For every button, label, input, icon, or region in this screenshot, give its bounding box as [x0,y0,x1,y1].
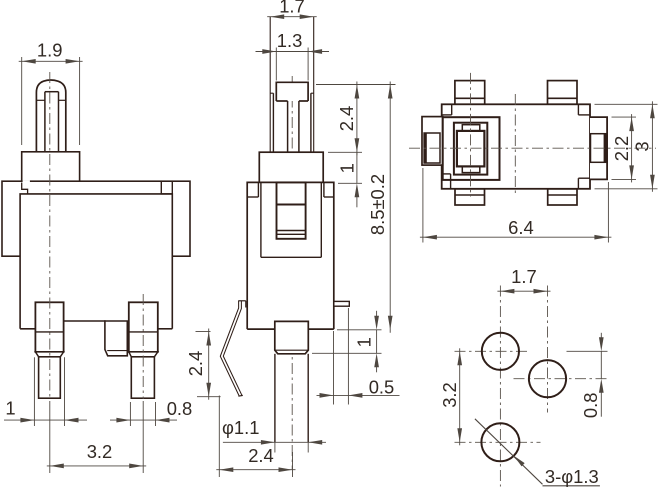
svg-text:3-φ1.3: 3-φ1.3 [545,466,599,487]
svg-text:φ1.1: φ1.1 [222,417,260,438]
svg-text:1.7: 1.7 [511,266,537,287]
svg-text:2.4: 2.4 [185,351,206,377]
svg-text:1.7: 1.7 [279,0,305,17]
svg-text:8.5±0.2: 8.5±0.2 [367,174,388,235]
svg-text:3.2: 3.2 [87,441,113,462]
svg-text:1.9: 1.9 [37,40,63,61]
svg-text:0.8: 0.8 [580,393,601,419]
svg-text:2.4: 2.4 [248,445,274,466]
svg-text:3.2: 3.2 [439,382,460,408]
svg-text:0.5: 0.5 [369,376,395,397]
svg-text:1: 1 [354,337,375,347]
svg-text:2.4: 2.4 [336,106,357,132]
svg-text:0.8: 0.8 [167,398,193,419]
svg-text:1: 1 [5,398,15,419]
svg-text:1: 1 [337,163,358,173]
svg-text:1.3: 1.3 [277,30,303,51]
svg-text:6.4: 6.4 [508,217,534,238]
svg-text:2.2: 2.2 [611,136,632,162]
svg-text:3: 3 [632,141,653,151]
